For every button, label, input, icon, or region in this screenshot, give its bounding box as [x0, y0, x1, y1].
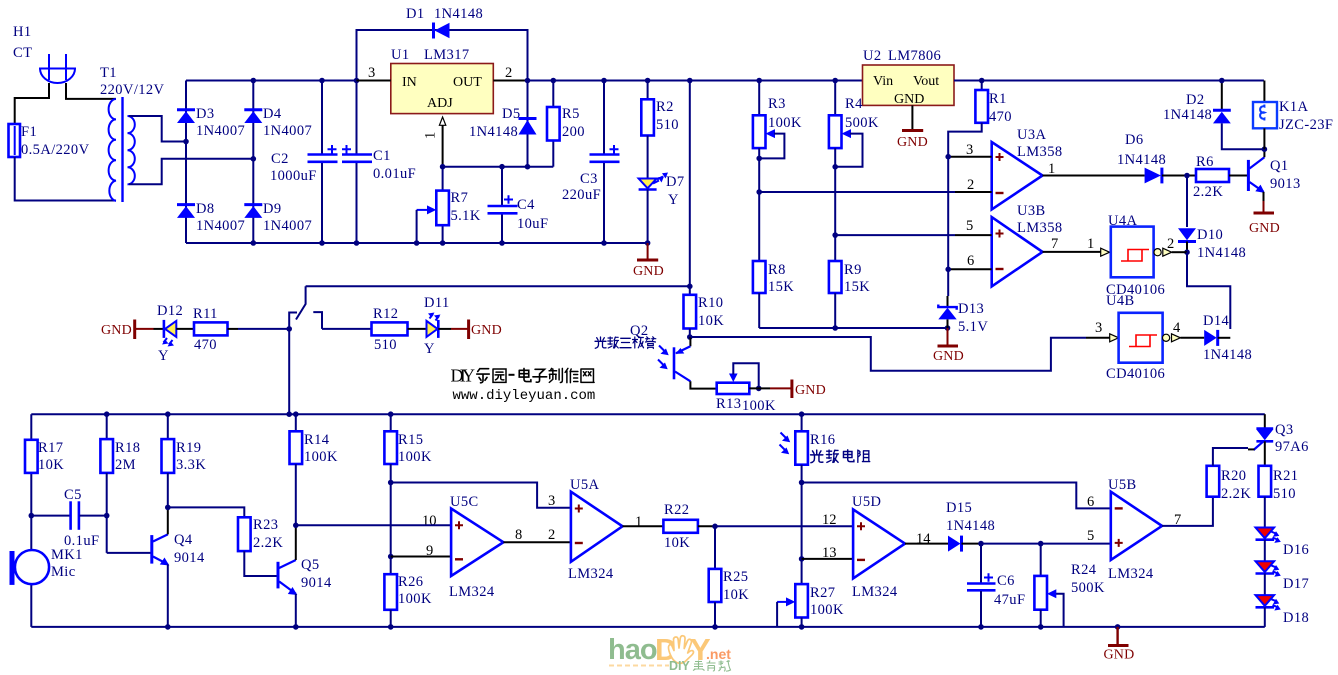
- resistor R11: [193, 306, 228, 353]
- wire R18 to Q4 base: [107, 552, 152, 554]
- capacitor C2: [270, 78, 338, 246]
- svg-text:1N4148: 1N4148: [434, 6, 483, 22]
- wire Q5 collector: [295, 525, 297, 560]
- wire Q2 emitter to R13: [690, 381, 716, 388]
- node D9 bottom rail: [251, 240, 257, 246]
- wire R22 to node: [698, 525, 715, 527]
- svg-text:C1: C1: [373, 148, 391, 164]
- svg-text:T1: T1: [100, 65, 117, 81]
- svg-text:1: 1: [423, 132, 439, 139]
- svg-text:1000uF: 1000uF: [270, 168, 317, 184]
- svg-text:R20: R20: [1221, 468, 1246, 484]
- svg-text:R17: R17: [38, 440, 63, 456]
- svg-text:9013: 9013: [1270, 176, 1301, 192]
- svg-text:5: 5: [1087, 528, 1094, 544]
- svg-text:10K: 10K: [664, 535, 690, 551]
- svg-text:470: 470: [194, 337, 217, 353]
- svg-text:R22: R22: [664, 502, 689, 518]
- diode D3: [177, 106, 245, 139]
- wire D1 bypass loop: [357, 30, 528, 81]
- node secondary top on D3 line: [183, 139, 189, 145]
- svg-text:H1: H1: [13, 24, 32, 40]
- capacitor C6: [967, 544, 1025, 630]
- resistor R21: [1259, 441, 1299, 527]
- svg-text:3: 3: [966, 142, 973, 158]
- wire D10 column: [1186, 176, 1188, 228]
- svg-text:GND: GND: [897, 135, 928, 150]
- svg-text:1: 1: [635, 514, 642, 530]
- svg-text:100K: 100K: [398, 591, 432, 607]
- svg-text:15K: 15K: [768, 279, 794, 295]
- svg-text:2: 2: [548, 527, 555, 543]
- wire switch down to lower rail: [288, 329, 290, 414]
- svg-text:D13: D13: [958, 301, 984, 317]
- svg-text:10K: 10K: [698, 313, 724, 329]
- relay K1A: [1253, 81, 1333, 150]
- svg-text:U3B: U3B: [1017, 203, 1046, 219]
- svg-text:D7: D7: [666, 174, 685, 190]
- svg-text:LM358: LM358: [1017, 220, 1063, 236]
- LED D11: [424, 295, 450, 357]
- svg-text:510: 510: [374, 337, 397, 353]
- wire GND to D12: [154, 328, 164, 330]
- svg-text:D5: D5: [502, 106, 521, 122]
- resistor R14: [290, 414, 338, 528]
- svg-text:1N4148: 1N4148: [469, 124, 518, 140]
- svg-text:C5: C5: [64, 487, 82, 503]
- svg-text:C6: C6: [997, 573, 1015, 589]
- svg-text:3: 3: [1095, 320, 1102, 336]
- svg-text:Q4: Q4: [174, 532, 193, 548]
- svg-text:C2: C2: [271, 151, 289, 167]
- wire switch right to R12: [322, 328, 372, 330]
- svg-text:2: 2: [1167, 236, 1174, 252]
- svg-text:GND: GND: [1249, 221, 1280, 236]
- wire U4A node down to D14: [1187, 252, 1230, 329]
- svg-text:5: 5: [966, 218, 973, 234]
- watermark haoDIY: [608, 632, 731, 673]
- svg-text:R3: R3: [768, 96, 786, 112]
- wire R23 to Q5 base: [244, 551, 278, 576]
- op-amp U3A: [992, 127, 1063, 209]
- ground symbol D12 left: [101, 320, 154, 340]
- svg-text:U4B: U4B: [1106, 293, 1135, 309]
- svg-text:Vin: Vin: [873, 74, 893, 89]
- svg-text:0.5A/220V: 0.5A/220V: [21, 142, 90, 158]
- svg-text:Y: Y: [424, 341, 435, 357]
- ground symbol D13: [933, 328, 964, 364]
- wire D18 to bottom rail: [1264, 607, 1266, 627]
- svg-text:R14: R14: [304, 432, 330, 448]
- potentiometer R13: [716, 363, 776, 414]
- resistor R17: [25, 440, 64, 473]
- diode D4: [244, 106, 312, 139]
- svg-text:GND: GND: [633, 264, 664, 279]
- LED D12: [157, 303, 183, 364]
- svg-text:R2: R2: [656, 99, 674, 115]
- pin 1 ADJ of U1: [439, 117, 445, 125]
- svg-text:D9: D9: [263, 201, 282, 217]
- node C5 tap: [29, 513, 35, 519]
- switch S1: [289, 286, 322, 329]
- node U1 out / D1: [525, 78, 531, 84]
- svg-text:D3: D3: [196, 106, 215, 122]
- wire bridge bottom rail: [186, 242, 648, 244]
- svg-text:U5D: U5D: [852, 494, 881, 510]
- svg-text:R1: R1: [989, 91, 1007, 107]
- svg-text:LM7806: LM7806: [888, 48, 941, 64]
- svg-text:100K: 100K: [398, 449, 432, 465]
- resistor R20: [1207, 448, 1252, 502]
- svg-text:D1: D1: [406, 6, 425, 22]
- resistor R10: [684, 295, 725, 340]
- svg-text:3: 3: [368, 65, 375, 81]
- svg-text:Vout: Vout: [913, 74, 939, 89]
- wire D14 to D10 node: [1218, 337, 1231, 339]
- svg-text:510: 510: [1273, 486, 1296, 502]
- wire Q2 collector node to U4B pin3: [690, 337, 1086, 371]
- transformer T1 primary winding: [109, 99, 116, 201]
- svg-text:R12: R12: [373, 306, 398, 322]
- wire D11 to GND: [438, 328, 451, 330]
- svg-text:LM317: LM317: [424, 47, 470, 63]
- ground symbol R13: [792, 380, 826, 399]
- svg-text:R16: R16: [810, 432, 835, 448]
- svg-text:R4: R4: [845, 96, 863, 112]
- svg-text:U5B: U5B: [1108, 477, 1137, 493]
- svg-text:10: 10: [422, 513, 437, 529]
- wire R6 to Q1 base: [1229, 175, 1248, 177]
- zener D13: [938, 296, 988, 335]
- svg-text:F1: F1: [21, 124, 37, 140]
- svg-text:4: 4: [1173, 320, 1181, 336]
- svg-text:U2: U2: [863, 48, 882, 64]
- op-amp U5B: [1108, 477, 1162, 582]
- schmitt inverter U4B: [1106, 293, 1180, 382]
- resistor R26: [384, 574, 432, 630]
- capacitor C3: [562, 78, 620, 246]
- resistor R12: [372, 306, 408, 353]
- resistor R6: [1193, 154, 1229, 200]
- LED D16: [1256, 528, 1310, 559]
- svg-text:R6: R6: [1196, 154, 1214, 170]
- svg-text:2.2K: 2.2K: [1221, 486, 1251, 502]
- svg-text:LM324: LM324: [449, 584, 495, 600]
- schmitt inverter U4A: [1101, 213, 1172, 298]
- svg-text:LM358: LM358: [1017, 144, 1063, 160]
- svg-text:LM324: LM324: [568, 566, 614, 582]
- diode D6: [1117, 132, 1166, 183]
- resistor R23: [238, 517, 283, 551]
- resistor R15: [384, 414, 432, 574]
- transistor Q1: [1248, 157, 1300, 193]
- wire Q1 collector: [1263, 149, 1265, 157]
- svg-text:7: 7: [1051, 236, 1058, 252]
- svg-text:www.diyleyuan.com: www.diyleyuan.com: [453, 388, 596, 404]
- wire lower top rail: [31, 413, 1265, 415]
- svg-text:470: 470: [989, 109, 1012, 125]
- svg-text:100K: 100K: [742, 398, 776, 414]
- svg-text:8: 8: [515, 527, 522, 543]
- svg-text:C4: C4: [517, 197, 535, 213]
- wire R8 R9 bottoms to D13: [759, 327, 947, 329]
- svg-text:OUT: OUT: [453, 75, 482, 90]
- svg-text:6: 6: [967, 253, 974, 269]
- svg-text:IN: IN: [402, 75, 417, 90]
- wire Q4 collector: [167, 507, 169, 534]
- svg-text:510: 510: [656, 117, 679, 133]
- svg-text:100K: 100K: [810, 602, 844, 618]
- svg-text:R5: R5: [562, 106, 580, 122]
- node secondary bottom on D4 line: [251, 156, 257, 162]
- diode D8: [177, 201, 245, 234]
- svg-text:0.01uF: 0.01uF: [373, 166, 416, 182]
- wire D10 to U4A output node: [1186, 242, 1188, 253]
- svg-text:R9: R9: [844, 262, 862, 278]
- svg-text:DIY: DIY: [451, 366, 476, 386]
- resistor R22: [663, 502, 698, 551]
- resistor R9: [829, 261, 870, 328]
- svg-text:R21: R21: [1273, 468, 1298, 484]
- svg-text:200: 200: [562, 124, 585, 140]
- svg-text:MK1: MK1: [51, 547, 83, 563]
- ground symbol power rail: [633, 243, 664, 279]
- potentiometer R7: [414, 167, 481, 246]
- diode D2: [1163, 92, 1231, 123]
- svg-text:10K: 10K: [723, 587, 749, 603]
- svg-text:1N4007: 1N4007: [196, 123, 245, 139]
- svg-text:500K: 500K: [1071, 580, 1105, 596]
- svg-text:R10: R10: [698, 295, 723, 311]
- svg-text:R24: R24: [1071, 562, 1097, 578]
- diode D9: [244, 201, 312, 234]
- svg-text:.net: .net: [706, 646, 731, 662]
- svg-text:Q2: Q2: [630, 323, 649, 339]
- svg-text:D10: D10: [1197, 227, 1223, 243]
- svg-text:D8: D8: [196, 201, 215, 217]
- microphone MK1: [10, 547, 83, 585]
- svg-text:1N4007: 1N4007: [263, 123, 312, 139]
- op-amp U3B: [992, 203, 1063, 286]
- node bottom rail end: [645, 240, 651, 246]
- svg-text:D18: D18: [1283, 610, 1309, 626]
- svg-text:2.2K: 2.2K: [253, 535, 283, 551]
- resistor R19: [162, 414, 207, 510]
- resistor R8: [753, 261, 794, 328]
- svg-text:R23: R23: [253, 517, 278, 533]
- svg-text:D14: D14: [1203, 313, 1230, 329]
- node D4 top rail: [251, 78, 257, 84]
- main rail U1 out to U2 in: [528, 80, 863, 82]
- svg-text:5.1V: 5.1V: [958, 319, 988, 335]
- wire bridge top rail: [186, 80, 356, 82]
- regulator U1 LM317: [391, 47, 494, 114]
- svg-text:GND: GND: [894, 92, 924, 107]
- svg-text:R13: R13: [716, 396, 741, 412]
- LED D7: [639, 173, 685, 244]
- svg-text:1N4148: 1N4148: [946, 518, 995, 534]
- wire D6 to R6: [1162, 175, 1196, 177]
- resistor R2: [641, 78, 679, 178]
- capacitor C5: [31, 487, 106, 549]
- potentiometer R3: [753, 78, 802, 261]
- svg-text:97A6: 97A6: [1275, 439, 1309, 455]
- transistor Q5: [278, 557, 332, 595]
- capacitor C1: [342, 78, 416, 246]
- svg-text:R27: R27: [810, 585, 835, 601]
- svg-text:CD40106: CD40106: [1106, 366, 1165, 382]
- svg-text:Q3: Q3: [1275, 422, 1294, 438]
- svg-text:hao: hao: [608, 634, 657, 666]
- svg-text:GND: GND: [933, 349, 964, 364]
- svg-text:D16: D16: [1283, 542, 1309, 558]
- resistor R1: [975, 81, 1012, 126]
- svg-text:D4: D4: [263, 106, 282, 122]
- wire lower left column: [30, 414, 32, 627]
- svg-text:2: 2: [967, 177, 974, 193]
- LED D18: [1256, 574, 1310, 627]
- diode D14: [1203, 313, 1252, 363]
- svg-text:3: 3: [548, 493, 555, 509]
- svg-text:Y: Y: [668, 192, 679, 208]
- wire plug right prong to transformer primary top: [66, 83, 116, 99]
- potentiometer R4: [829, 78, 879, 261]
- svg-text:3.3K: 3.3K: [176, 457, 206, 473]
- diode D5: [469, 106, 537, 140]
- svg-text:U4A: U4A: [1108, 213, 1138, 229]
- svg-text:1N4007: 1N4007: [263, 218, 312, 234]
- wire R19 node to R23: [168, 507, 245, 517]
- wire D4 column: [252, 81, 254, 244]
- ground symbol Q1: [1249, 192, 1280, 236]
- svg-text:D17: D17: [1283, 576, 1309, 592]
- potentiometer R24: [1034, 544, 1105, 630]
- svg-text:R19: R19: [176, 440, 201, 456]
- svg-text:1: 1: [1087, 236, 1094, 252]
- svg-text:5.1K: 5.1K: [451, 208, 481, 224]
- svg-text:10uF: 10uF: [517, 216, 548, 232]
- svg-text:1N4148: 1N4148: [1203, 347, 1252, 363]
- svg-text:U5C: U5C: [450, 494, 479, 510]
- diode D1: [406, 6, 483, 39]
- op-amp U5D: [852, 494, 905, 600]
- wire fuse to primary bottom: [15, 157, 116, 201]
- svg-text:1N4148: 1N4148: [1163, 107, 1212, 123]
- wire Q5 emitter: [295, 594, 297, 627]
- svg-text:Q1: Q1: [1270, 158, 1289, 174]
- svg-text:R25: R25: [723, 569, 748, 585]
- wire D2 column: [1221, 81, 1223, 110]
- LED D17: [1256, 540, 1310, 592]
- svg-text:Q5: Q5: [301, 557, 320, 573]
- svg-text:D2: D2: [1186, 92, 1205, 108]
- wire R11 to switch: [228, 328, 239, 330]
- thyristor Q3: [1248, 414, 1309, 455]
- wire U2 Vout to rail: [954, 80, 1264, 82]
- phototransistor Q2: [595, 323, 690, 381]
- wire R12 to D11: [408, 328, 427, 330]
- svg-text:2: 2: [505, 65, 512, 81]
- wire secondary top to D3 column: [129, 116, 186, 142]
- wire secondary bottom to D4 column: [129, 159, 253, 185]
- potentiometer R27: [777, 584, 844, 630]
- svg-text:U5A: U5A: [570, 477, 600, 493]
- svg-text:D6: D6: [1125, 132, 1144, 148]
- svg-text:GND: GND: [795, 383, 826, 398]
- transformer T1 core: [121, 97, 123, 202]
- resistor R18: [100, 414, 140, 553]
- svg-text:R7: R7: [451, 190, 469, 206]
- svg-text:K1A: K1A: [1279, 99, 1309, 115]
- photoresistor R16: [780, 414, 870, 584]
- svg-text:D15: D15: [946, 500, 972, 516]
- svg-text:500K: 500K: [845, 115, 879, 131]
- svg-text:47uF: 47uF: [994, 592, 1025, 608]
- svg-text:2M: 2M: [115, 457, 136, 473]
- svg-text:R11: R11: [193, 306, 218, 322]
- op-amp U5A: [568, 477, 623, 582]
- wire D12 to R11: [176, 328, 194, 330]
- ground symbol D11 right: [469, 320, 502, 340]
- svg-text:R15: R15: [398, 432, 423, 448]
- fuse F1: [9, 124, 21, 157]
- svg-text:JZC-23F: JZC-23F: [1279, 117, 1333, 133]
- svg-text:GND: GND: [1104, 648, 1135, 663]
- svg-text:GND: GND: [101, 323, 132, 338]
- svg-text:CT: CT: [13, 45, 32, 61]
- transistor Q4: [152, 532, 205, 566]
- resistor R25: [709, 526, 750, 629]
- wire V+ bus column x690: [689, 81, 691, 295]
- svg-text:GND: GND: [471, 323, 502, 338]
- wire D15 to C6 node: [962, 543, 982, 545]
- wire D2 to Q1 collector node: [1222, 123, 1265, 149]
- svg-text:10K: 10K: [38, 457, 64, 473]
- wire R1 to inverting bus: [948, 123, 982, 296]
- svg-text:U1: U1: [391, 47, 410, 63]
- plug H1 symbol: [39, 54, 76, 83]
- svg-text:R8: R8: [768, 262, 786, 278]
- svg-text:D11: D11: [424, 295, 450, 311]
- svg-text:1N4148: 1N4148: [1117, 152, 1166, 168]
- svg-text:100K: 100K: [304, 449, 338, 465]
- svg-text:100K: 100K: [768, 115, 802, 131]
- svg-text:Mic: Mic: [51, 564, 76, 580]
- svg-text:D12: D12: [157, 303, 183, 319]
- wire D3 column: [185, 81, 187, 244]
- svg-text:220uF: 220uF: [562, 187, 601, 203]
- svg-text:LM324: LM324: [1108, 566, 1154, 582]
- svg-text:ADJ: ADJ: [427, 96, 453, 111]
- diode D15: [946, 500, 995, 552]
- ground symbol U2: [897, 105, 928, 150]
- svg-text:9014: 9014: [174, 550, 205, 566]
- op-amp U5C: [449, 494, 503, 600]
- svg-text:1N4148: 1N4148: [1197, 245, 1246, 261]
- diode D10: [1178, 227, 1246, 261]
- svg-text:C3: C3: [580, 171, 598, 187]
- svg-text:2.2K: 2.2K: [1193, 184, 1223, 200]
- wire D5 column: [527, 81, 529, 167]
- wire ADJ node row: [443, 166, 554, 168]
- regulator U2 LM7806: [863, 48, 955, 107]
- svg-text:U3A: U3A: [1017, 127, 1047, 143]
- svg-text:220V/12V: 220V/12V: [100, 82, 165, 98]
- capacitor C4: [488, 164, 549, 246]
- ground symbol bottom: [1104, 624, 1135, 662]
- wire lower bottom rail: [31, 626, 1265, 628]
- svg-text:15K: 15K: [844, 279, 870, 295]
